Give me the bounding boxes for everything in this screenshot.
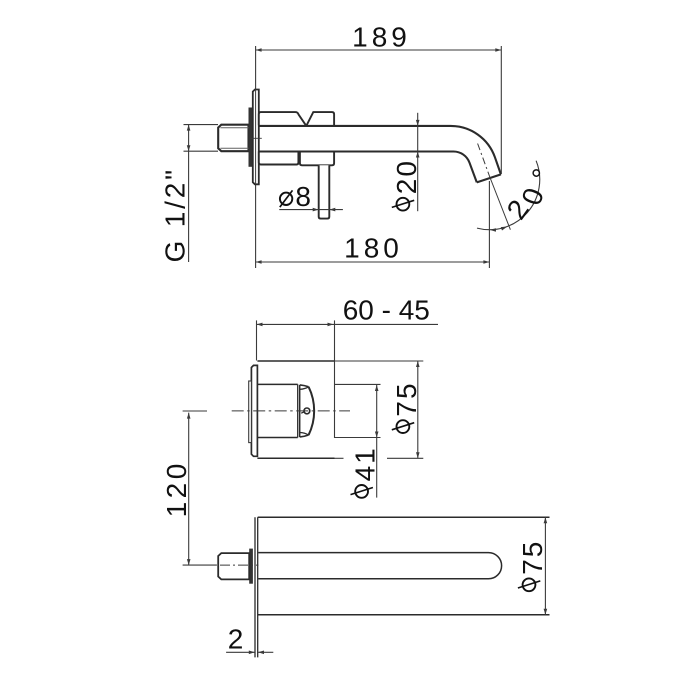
dim 189 label (352, 21, 411, 52)
spout slot stadium (258, 553, 501, 579)
dim 120 top extension (183, 410, 207, 412)
angle 20deg arc (477, 161, 540, 230)
spout body bottom edge (258, 614, 550, 616)
handle cap flat edge (299, 385, 301, 437)
dim phi41 bottom extension (335, 437, 381, 439)
plate edge front line (254, 517, 256, 657)
mixer centerline (232, 410, 350, 412)
dim phi20 line (416, 113, 420, 211)
handle cap top inner line (300, 387, 309, 390)
inner sleeve top edge (257, 383, 297, 385)
dim phi41 label (350, 446, 381, 498)
lever rod phi8 (319, 165, 330, 218)
spout tube top outline (259, 126, 501, 175)
lower clamp right part (300, 151, 334, 165)
dim 2 label (228, 624, 244, 655)
mixer body top edge (257, 360, 423, 362)
bottom nipple (218, 553, 249, 579)
angle 20deg glyph 2 (501, 194, 535, 225)
dim phi8 label (280, 181, 313, 212)
plate edge back line (257, 517, 259, 657)
mixer plate (251, 365, 257, 456)
label G 1/2 inch (160, 167, 191, 262)
svg-text:60 - 45: 60 - 45 (343, 295, 430, 326)
dim G1/2 upper extension (184, 124, 219, 126)
threaded nipple G1/2 (218, 125, 248, 152)
dim phi41 top extension (335, 383, 381, 385)
dim phi75b line (544, 517, 548, 615)
gasket disc (filled) (249, 108, 253, 167)
spout body top edge (258, 516, 550, 518)
spout mouth edge (477, 174, 501, 182)
dim phi8 line (279, 208, 343, 212)
svg-text:75: 75 (391, 381, 422, 416)
dim 120 bottom extension (183, 564, 217, 566)
svg-text:75: 75 (517, 540, 548, 575)
dim 60-45 left extension (256, 320, 258, 360)
svg-text:189: 189 (352, 21, 411, 52)
mixer body bottom edge (257, 457, 423, 459)
dim 60-45 right extension (334, 320, 336, 438)
upper clamp left part (259, 112, 306, 125)
spout tube bottom outline (259, 151, 477, 182)
svg-text:2: 2 (228, 624, 244, 655)
inner sleeve front edge (297, 384, 299, 437)
svg-text:180: 180 (344, 232, 403, 263)
dim 189 left extension (wall face) (255, 46, 257, 268)
outlet centerline dash-dot (478, 144, 490, 178)
angle 20deg glyph 0 (516, 184, 550, 209)
svg-text:41: 41 (350, 446, 381, 481)
bottom gasket (filled) (249, 549, 253, 584)
angle arrow at slanted line (501, 227, 508, 231)
lower clamp left part (259, 151, 299, 164)
plate centerline tick (250, 137, 261, 139)
angle 20deg degree sign (526, 166, 558, 182)
dim phi41 line (375, 385, 379, 498)
outlet direction line (490, 177, 511, 230)
angle arrow at vertical line (490, 228, 497, 232)
dim 60-45 line (257, 323, 439, 327)
dim 180 label (344, 232, 403, 263)
dim 120 line (187, 413, 191, 565)
handle cap bottom inner line (300, 433, 309, 436)
upper clamp right part (307, 112, 335, 125)
dim 60-45 label (343, 295, 430, 326)
svg-text:8: 8 (295, 181, 313, 212)
dim 189 line (256, 48, 502, 52)
dim 180 right extension (488, 181, 490, 268)
escutcheon plate (253, 90, 259, 185)
dim G1/2 line (187, 125, 191, 262)
bottom centerline (220, 564, 259, 566)
dim phi75b label (517, 540, 548, 592)
wall face extension over plate (255, 90, 257, 185)
svg-text:120: 120 (161, 460, 192, 517)
dim 180 line (256, 260, 490, 264)
dim phi75 label (391, 381, 422, 433)
svg-text:G 1/2": G 1/2" (160, 167, 191, 262)
dim phi75 line (416, 361, 420, 458)
dim 189 right extension (spout tip) (500, 46, 502, 174)
handle cap top edge (300, 385, 309, 387)
handle dome arc (309, 387, 315, 435)
dim 2 line right (258, 651, 273, 655)
lever pin (301, 408, 310, 414)
dim 120 label (161, 460, 192, 517)
dim 2 line left (226, 651, 255, 655)
dim G1/2 lower extension (184, 150, 219, 152)
svg-text:20: 20 (391, 159, 422, 194)
inner sleeve bottom edge (257, 437, 297, 439)
handle cap bottom edge (300, 435, 309, 437)
mixer gasket strip (249, 381, 252, 443)
dim phi20 label (391, 159, 422, 211)
